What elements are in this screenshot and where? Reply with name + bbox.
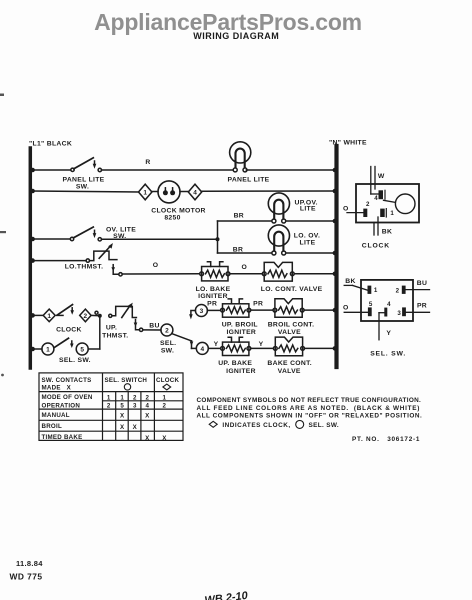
svg-text:BU: BU <box>417 280 427 287</box>
svg-text:X: X <box>162 435 167 442</box>
svg-text:WB 2-10: WB 2-10 <box>204 590 249 600</box>
svg-text:"L1" BLACK: "L1" BLACK <box>29 141 72 148</box>
svg-text:5: 5 <box>369 301 373 308</box>
svg-text:WD 775: WD 775 <box>10 572 43 582</box>
svg-text:2: 2 <box>107 403 111 410</box>
svg-text:SW. CONTACTS: SW. CONTACTS <box>42 377 92 384</box>
svg-text:BROIL CONT.: BROIL CONT. <box>268 321 315 328</box>
svg-text:IGNITER: IGNITER <box>226 329 256 336</box>
svg-text:IGNITER: IGNITER <box>198 293 228 300</box>
svg-text:LO. BAKE: LO. BAKE <box>196 286 231 293</box>
svg-text:O: O <box>153 262 159 269</box>
svg-text:SW.: SW. <box>113 233 126 240</box>
svg-text:MADE X: MADE X <box>42 384 72 391</box>
svg-text:CLOCK: CLOCK <box>362 243 390 250</box>
svg-text:4: 4 <box>374 195 378 202</box>
svg-text:Y: Y <box>259 341 264 348</box>
svg-text:R: R <box>145 159 150 166</box>
svg-text:1: 1 <box>143 189 147 196</box>
svg-text:INDICATES CLOCK,: INDICATES CLOCK, <box>222 422 290 429</box>
svg-text:4: 4 <box>200 346 204 353</box>
svg-text:Y: Y <box>386 330 391 337</box>
svg-text:MANUAL: MANUAL <box>42 412 70 419</box>
svg-text:UP. BAKE: UP. BAKE <box>218 360 252 367</box>
svg-text:BU: BU <box>149 323 159 330</box>
svg-text:BR: BR <box>234 212 244 219</box>
svg-text:3: 3 <box>133 403 137 410</box>
svg-text:BK: BK <box>345 278 355 285</box>
svg-text:O: O <box>242 264 248 271</box>
svg-text:PR: PR <box>207 301 217 308</box>
svg-text:LO. OV.: LO. OV. <box>294 233 320 240</box>
svg-text:5: 5 <box>120 403 124 410</box>
svg-text:2: 2 <box>133 395 137 402</box>
svg-text:2: 2 <box>163 403 167 410</box>
svg-text:COMPONENT SYMBOLS DO NOT REFLE: COMPONENT SYMBOLS DO NOT REFLECT TRUE CO… <box>197 397 422 404</box>
svg-text:2: 2 <box>145 395 149 402</box>
svg-text:4: 4 <box>193 189 197 196</box>
svg-text:4: 4 <box>387 301 391 308</box>
svg-text:OPERATION: OPERATION <box>42 402 81 409</box>
svg-text:11.8.84: 11.8.84 <box>16 559 43 568</box>
svg-text:1: 1 <box>390 210 394 217</box>
svg-text:2: 2 <box>396 288 400 295</box>
svg-text:VALVE: VALVE <box>278 329 301 336</box>
svg-text:THMST.: THMST. <box>102 333 128 340</box>
svg-text:PR: PR <box>417 303 427 310</box>
svg-text:1: 1 <box>374 287 378 294</box>
svg-text:X: X <box>120 413 125 420</box>
svg-text:ALL FEED LINE COLORS ARE AS NO: ALL FEED LINE COLORS ARE AS NOTED. (BLAC… <box>197 405 421 412</box>
svg-text:2: 2 <box>165 327 169 334</box>
svg-text:CLOCK: CLOCK <box>56 326 82 333</box>
svg-text:SEL. SW.: SEL. SW. <box>309 422 340 429</box>
svg-text:PT. NO. 306172-1: PT. NO. 306172-1 <box>352 436 420 443</box>
svg-text:1: 1 <box>46 346 50 353</box>
svg-text:O: O <box>343 305 349 312</box>
svg-text:LO.THMST.: LO.THMST. <box>65 263 104 270</box>
svg-text:SEL.: SEL. <box>160 340 176 347</box>
svg-text:BAKE CONT.: BAKE CONT. <box>267 360 312 367</box>
svg-text:SEL. SW.: SEL. SW. <box>370 350 406 357</box>
svg-text:X: X <box>120 424 125 431</box>
svg-text:VALVE: VALVE <box>278 368 301 375</box>
svg-text:BR: BR <box>233 246 243 253</box>
svg-text:PANEL LITE: PANEL LITE <box>227 177 269 184</box>
svg-text:LITE: LITE <box>300 206 316 213</box>
svg-text:MODE OF OVEN: MODE OF OVEN <box>42 394 93 401</box>
svg-text:2: 2 <box>366 201 370 208</box>
svg-text:PANEL LITE: PANEL LITE <box>62 177 104 184</box>
svg-text:UP.: UP. <box>106 325 117 332</box>
svg-text:3: 3 <box>200 308 204 315</box>
svg-text:SEL. SW.: SEL. SW. <box>59 357 91 364</box>
svg-text:1: 1 <box>47 313 51 320</box>
svg-text:ALL COMPONENTS SHOWN IN "OFF": ALL COMPONENTS SHOWN IN "OFF" OR "RELAXE… <box>197 413 423 420</box>
svg-text:PR: PR <box>253 301 263 308</box>
svg-text:SEL. SWITCH: SEL. SWITCH <box>105 377 148 384</box>
svg-text:O: O <box>343 206 349 213</box>
svg-text:BK: BK <box>382 229 392 236</box>
svg-text:LITE: LITE <box>300 240 316 247</box>
svg-text:CLOCK: CLOCK <box>156 377 180 384</box>
svg-text:TIMED BAKE: TIMED BAKE <box>42 434 83 441</box>
svg-text:UP. BROIL: UP. BROIL <box>222 321 258 328</box>
svg-text:1: 1 <box>107 395 111 402</box>
svg-text:LO. CONT. VALVE: LO. CONT. VALVE <box>261 286 323 293</box>
svg-text:IGNITER: IGNITER <box>226 368 256 375</box>
svg-text:BROIL: BROIL <box>42 423 63 430</box>
svg-text:X: X <box>145 413 150 420</box>
svg-text:1: 1 <box>163 395 167 402</box>
svg-text:W: W <box>378 173 385 180</box>
svg-text:SW.: SW. <box>161 348 174 355</box>
svg-text:X: X <box>133 424 138 431</box>
svg-text:Y: Y <box>214 341 219 348</box>
svg-text:5: 5 <box>80 346 84 353</box>
svg-text:3: 3 <box>397 310 401 317</box>
svg-text:SW.: SW. <box>76 184 89 191</box>
svg-text:1: 1 <box>120 395 124 402</box>
svg-text:8250: 8250 <box>164 215 180 222</box>
svg-text:X: X <box>145 435 150 442</box>
svg-text:2: 2 <box>83 313 87 320</box>
svg-text:"N" WHITE: "N" WHITE <box>329 140 367 147</box>
svg-text:4: 4 <box>145 403 149 410</box>
svg-text:WIRING DIAGRAM: WIRING DIAGRAM <box>193 31 279 41</box>
